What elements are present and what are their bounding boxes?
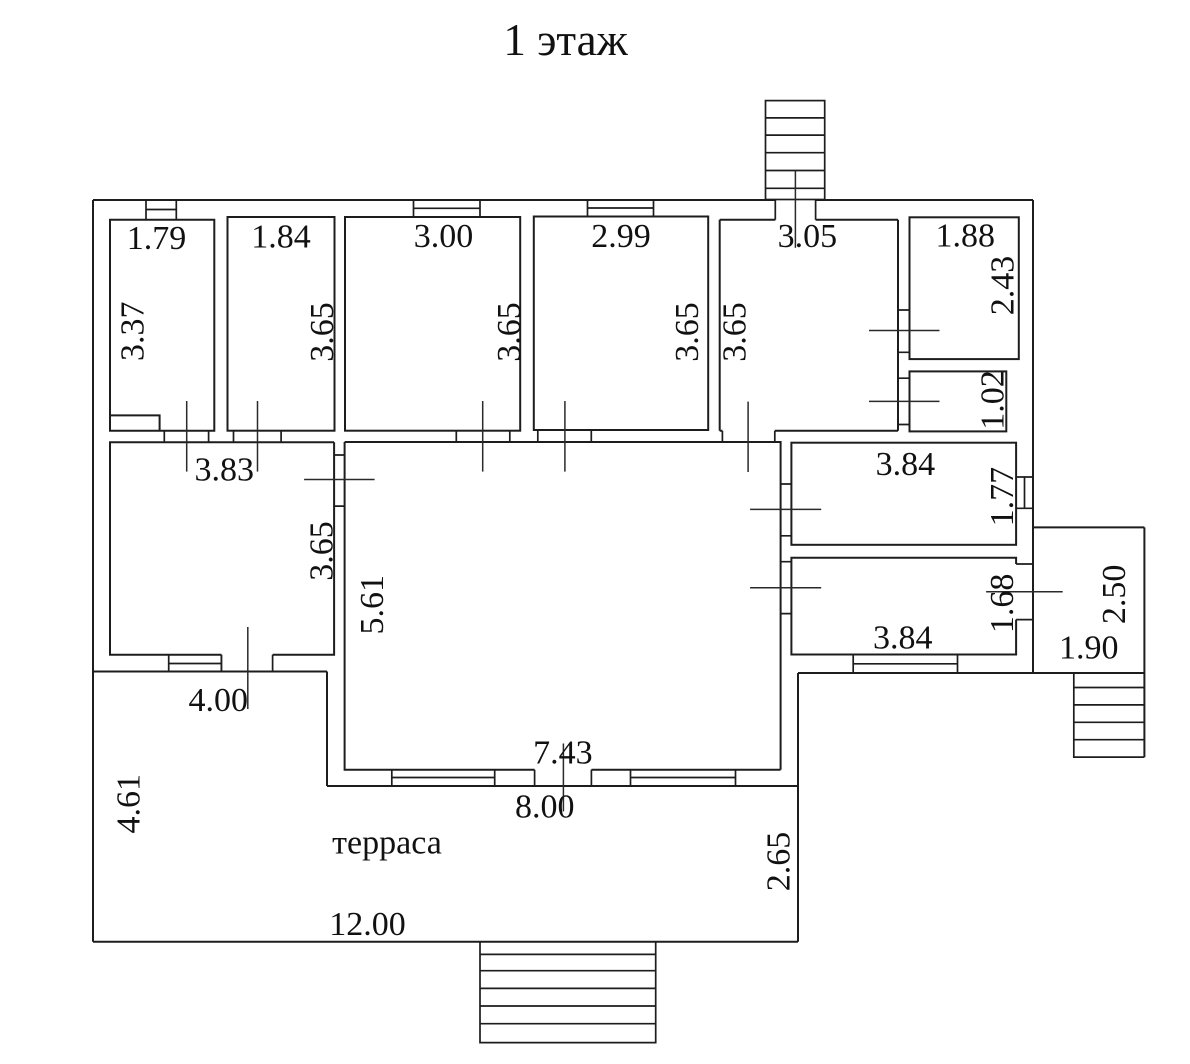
svg-text:3.65: 3.65	[669, 302, 706, 362]
door line M	[247, 627, 249, 709]
svg-text:3.65: 3.65	[304, 521, 341, 581]
room 1.84	[228, 217, 335, 431]
door jambs	[164, 200, 1033, 786]
svg-text:1.02: 1.02	[975, 370, 1012, 430]
door line G	[869, 330, 940, 332]
door H jambs (3.05 to 1.02)	[898, 378, 910, 424]
svg-text:3.37: 3.37	[114, 302, 151, 362]
window W6 big room bottom wall right	[631, 770, 736, 786]
svg-text:4.61: 4.61	[111, 774, 148, 834]
svg-text:1.79: 1.79	[127, 220, 187, 257]
svg-text:12.00: 12.00	[329, 906, 406, 943]
door line D	[564, 401, 566, 472]
svg-text:3.83: 3.83	[194, 452, 254, 489]
porch right edge	[1143, 527, 1145, 757]
window W2 top wall above 3.00	[414, 200, 481, 217]
door M jambs (hall to terrace)	[221, 655, 272, 672]
terrace right edge	[797, 673, 799, 942]
door C jambs (3.00 to big room)	[456, 431, 510, 442]
room 3.05 (openings: entrance top, door to big room bottom, doors right)	[720, 220, 898, 431]
svg-text:3.65: 3.65	[491, 302, 528, 362]
door B jambs (1.84 to hall)	[234, 431, 282, 443]
svg-text:3.84: 3.84	[876, 446, 936, 483]
window W8 right wall of room 1.77	[1016, 477, 1033, 508]
svg-text:7.43: 7.43	[533, 735, 593, 772]
entrance door jambs	[775, 200, 815, 220]
svg-text:8.00: 8.00	[515, 789, 575, 826]
outer wall below big room	[327, 785, 798, 787]
door E jambs (3.05 to big room)	[722, 431, 774, 442]
svg-text:1 этаж: 1 этаж	[503, 15, 628, 65]
window W7 below room 1.68	[853, 655, 957, 674]
window W4 hall bottom wall	[169, 655, 222, 672]
svg-text:5.61: 5.61	[354, 575, 391, 635]
door I jambs (hall to big room)	[334, 455, 345, 506]
door G jambs (3.05 to 1.88)	[898, 310, 910, 352]
niche in room 1.79	[110, 415, 160, 430]
door line B	[257, 401, 259, 472]
window W3 top wall above 2.99	[588, 200, 654, 217]
door A jambs (1.79 to hall)	[164, 431, 208, 443]
terrace bottom edge	[93, 941, 798, 943]
svg-text:1.68: 1.68	[984, 574, 1021, 634]
svg-text:2.50: 2.50	[1096, 565, 1133, 625]
door line C	[482, 401, 484, 472]
door line N	[562, 744, 564, 812]
outer wall step down at x=327	[326, 672, 328, 787]
door line H	[869, 400, 940, 402]
door D jambs (2.99 to big room)	[538, 430, 592, 442]
door line E	[747, 402, 749, 472]
outer wall bottom-left section	[93, 671, 327, 673]
windows	[146, 200, 1033, 786]
stairs bottom	[480, 942, 656, 1043]
room 1.88 (door opening on left wall)	[910, 217, 1019, 359]
outer wall top (with entrance opening)	[93, 199, 1033, 201]
dimension labels vertical (rotated)	[111, 256, 1134, 892]
outer wall right (with porch door opening)	[1032, 200, 1034, 673]
room 1.02 (door opening on left wall)	[910, 371, 1007, 431]
door line J	[750, 508, 821, 510]
door leaf lines	[187, 171, 1063, 812]
svg-text:2.43: 2.43	[985, 256, 1022, 316]
svg-text:3.65: 3.65	[717, 302, 754, 362]
door line F entrance	[794, 171, 796, 248]
svg-text:2.65: 2.65	[761, 832, 798, 892]
window W1 top wall above 1.79	[146, 200, 176, 220]
door J jambs (big room to 1.77)	[781, 484, 792, 536]
dimension labels horizontal	[127, 218, 1119, 943]
svg-text:3.84: 3.84	[873, 620, 933, 657]
outer wall bottom-right section	[798, 672, 1144, 674]
svg-text:2.99: 2.99	[591, 218, 651, 255]
door line L	[986, 591, 1063, 593]
svg-text:1.88: 1.88	[936, 218, 996, 255]
svg-text:1.77: 1.77	[984, 467, 1021, 526]
room 3.00	[345, 217, 520, 431]
room 3.84x1.68 (door opening on right wall)	[791, 558, 1016, 655]
door line I	[304, 479, 375, 481]
svg-text:3.65: 3.65	[304, 302, 341, 362]
svg-text:3.05: 3.05	[778, 218, 838, 255]
svg-text:3.00: 3.00	[414, 218, 474, 255]
room 2.99	[534, 217, 708, 431]
big room 5.61 (openings left wall and bottom)	[345, 442, 781, 770]
door L jambs (1.68 to porch)	[1016, 564, 1033, 620]
svg-text:4.00: 4.00	[189, 682, 249, 719]
outer wall left	[92, 200, 94, 942]
stairs right	[1074, 673, 1145, 757]
window W5 big room bottom wall left	[392, 770, 495, 786]
porch top edge	[1033, 526, 1144, 528]
hall room 3.83x3.65 (door openings right wall and bottom)	[110, 442, 334, 655]
room 1.79	[110, 220, 214, 431]
room 3.84x1.77	[791, 443, 1016, 545]
svg-text:1.84: 1.84	[251, 219, 311, 256]
door line K	[750, 587, 821, 589]
door N jambs (big room to terrace)	[535, 770, 592, 786]
svg-text:терраса: терраса	[332, 825, 442, 862]
stairs top	[766, 101, 825, 200]
svg-text:1.90: 1.90	[1059, 630, 1119, 667]
door line A	[186, 401, 188, 472]
door K jambs (big room to 1.68)	[781, 562, 792, 614]
